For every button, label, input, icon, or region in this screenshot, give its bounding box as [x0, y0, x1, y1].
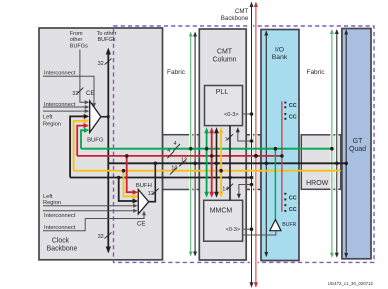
CMT backbone dashed boundary: [114, 26, 375, 262]
svg-text:10: 10: [171, 166, 177, 172]
svg-text:Left: Left: [43, 114, 53, 120]
svg-text:UG472_c1_30_020712: UG472_c1_30_020712: [328, 281, 374, 286]
wire yellow BUFG input: [74, 121, 84, 171]
bus slash 12 (black): [179, 159, 186, 166]
wire red BUFG input: [77, 126, 84, 156]
svg-text:CE: CE: [86, 90, 95, 97]
buffer BUFG: [90, 101, 110, 133]
bus slash 32 (bottom trunk): [105, 232, 112, 238]
wire red CMT vertical: [209, 127, 214, 198]
svg-text:BUFGs: BUFGs: [70, 43, 88, 49]
wire backbone to PLL input: [236, 127, 252, 141]
wire black lower bus: [70, 177, 251, 179]
svg-text:MMCM: MMCM: [210, 208, 233, 215]
wire interconnect 2b: [43, 110, 86, 112]
svg-text:HROW: HROW: [306, 180, 329, 187]
HROW band middle segment: [246, 135, 261, 190]
wire left region lower to BUFH: [43, 205, 134, 207]
svg-text:4: 4: [173, 141, 176, 147]
svg-text:CE: CE: [137, 221, 146, 228]
wire left region to BUFG (black): [70, 116, 85, 177]
wire interconnect 3 to BUFH: [43, 210, 134, 212]
svg-text:4: 4: [167, 148, 170, 154]
junction dots: [117, 112, 348, 231]
GT quad box: [342, 29, 371, 259]
fabric vertical green (right): [330, 29, 334, 258]
wire black drop to BUFH: [119, 178, 134, 202]
MMCM box: [204, 200, 243, 241]
bus slash 7: [227, 134, 233, 140]
svg-text:32: 32: [98, 234, 104, 240]
svg-text:CC: CC: [289, 115, 297, 121]
wire black HROW bus: [108, 162, 346, 164]
svg-text:BUFGs: BUFGs: [97, 37, 115, 43]
svg-text:To other: To other: [97, 31, 117, 37]
svg-text:<0-3>: <0-3>: [224, 112, 239, 118]
buffer BUFR: [270, 220, 281, 231]
svg-text:Clock: Clock: [52, 238, 70, 245]
svg-text:Column: Column: [212, 57, 236, 64]
svg-text:Backbone: Backbone: [221, 15, 249, 22]
node CC pads upper: [284, 102, 286, 120]
svg-text:Quad: Quad: [349, 146, 366, 153]
bus slash 10 (yellow): [170, 168, 177, 175]
wire PLL output to backbone: [243, 113, 252, 115]
svg-text:Region: Region: [43, 200, 61, 206]
wire interconnect 1 to CE: [43, 76, 94, 104]
bus slash 32 (from other BUFGs): [77, 88, 84, 94]
svg-text:32: 32: [98, 61, 104, 67]
wire green bus: [81, 148, 332, 150]
svg-text:Interconnect: Interconnect: [44, 102, 76, 108]
svg-text:12: 12: [148, 191, 154, 197]
fabric vertical green (left): [189, 32, 193, 257]
svg-text:Fabric: Fabric: [306, 69, 325, 76]
svg-text:CC: CC: [289, 195, 297, 201]
fabric vertical black (left): [193, 32, 197, 257]
svg-text:Interconnect: Interconnect: [44, 213, 76, 219]
svg-text:CMT: CMT: [217, 49, 233, 56]
svg-text:BUFR: BUFR: [282, 222, 296, 228]
wire interconnect 2a: [43, 106, 86, 108]
wire red bus: [77, 155, 282, 157]
wire MMCM to BUFR: [243, 231, 276, 235]
wire PLL to MMCM vertical: [229, 126, 231, 201]
bus slash 12 (BUFH out): [153, 188, 159, 194]
svg-text:14: 14: [222, 187, 228, 193]
GT quad internal clock vertical: [344, 30, 348, 259]
wire green to BUFR: [274, 149, 276, 220]
svg-text:CC: CC: [289, 103, 297, 109]
svg-text:Bank: Bank: [272, 54, 288, 61]
svg-text:BUFH: BUFH: [136, 183, 152, 189]
svg-text:other: other: [70, 37, 83, 43]
bus slash 14: [227, 184, 233, 190]
clock backbone box: [39, 28, 163, 260]
svg-text:CC: CC: [289, 207, 297, 213]
svg-text:<0-3>: <0-3>: [226, 227, 241, 233]
wire yellow bus: [74, 170, 341, 172]
CMT backbone vertical red: [254, 2, 258, 288]
wire CC red vertical: [281, 101, 283, 211]
HROW band right segment: [301, 135, 341, 190]
wire black CMT vertical: [214, 127, 219, 198]
CMT column box: [199, 29, 246, 260]
wire red drop to BUFH: [127, 156, 134, 192]
CMT backbone vertical black: [250, 2, 254, 288]
svg-text:GT: GT: [353, 138, 363, 145]
wire yellow drop to BUFH: [124, 171, 134, 197]
svg-text:Region: Region: [43, 121, 61, 127]
svg-text:From: From: [70, 31, 83, 37]
svg-text:Interconnect: Interconnect: [44, 70, 76, 76]
svg-text:CMT: CMT: [235, 8, 249, 15]
wire backbone to MMCM input: [237, 185, 252, 199]
wire green CMT vertical: [204, 127, 209, 198]
svg-text:I/O: I/O: [275, 47, 284, 54]
I/O bank box: [261, 30, 299, 261]
wire from other BUFGs: [80, 50, 86, 103]
node CC pads lower: [284, 193, 286, 212]
wire interconnect 4 to BUFH CE: [43, 219, 85, 231]
svg-text:32: 32: [72, 91, 78, 97]
wire MMCM output to backbone: [243, 228, 252, 230]
PLL box: [205, 86, 243, 126]
HROW band left segment: [163, 135, 200, 190]
bus slash 4 (red): [167, 151, 174, 158]
wire yellow CMT vertical: [219, 127, 224, 198]
buffer BUFH: [138, 163, 155, 214]
svg-text:Left: Left: [43, 194, 53, 200]
svg-text:7: 7: [225, 138, 228, 144]
bus slash 32 (top trunk): [105, 59, 112, 65]
I/O bank internal clock vertical: [264, 31, 268, 258]
svg-text:PLL: PLL: [216, 89, 229, 96]
svg-text:Fabric: Fabric: [167, 69, 186, 76]
wire green BUFG input: [81, 130, 84, 148]
svg-text:12: 12: [181, 158, 187, 164]
svg-text:Interconnect: Interconnect: [44, 225, 76, 231]
svg-text:BUFG: BUFG: [87, 138, 104, 144]
fabric vertical black (right): [335, 29, 339, 258]
bus slash 4 (green): [173, 144, 180, 151]
BUFG output trunk vertical (32): [106, 48, 111, 254]
svg-text:Backbone: Backbone: [47, 245, 78, 252]
